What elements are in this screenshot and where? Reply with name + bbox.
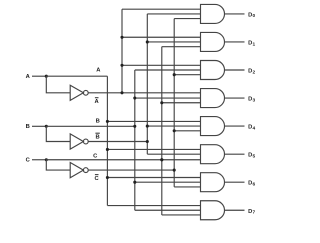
junction on bus at D4 bottom tap — [173, 129, 176, 132]
and-gate U11 (D7) — [201, 201, 225, 220]
wire C to C bus — [46, 159, 162, 161]
wire D5 bottom input — [162, 159, 201, 161]
junction on bus at D2 top tap — [120, 64, 123, 67]
wire D1 bottom input — [162, 46, 201, 48]
wire D3 bottom input — [162, 102, 201, 104]
and-gate U4 (D0) — [201, 4, 225, 23]
wire D4 bottom input — [174, 130, 200, 132]
svg-text:1: 1 — [253, 41, 256, 47]
and-gate U10 (D6) — [201, 173, 225, 192]
wire B inverter branch — [46, 126, 70, 141]
wire D2 bottom input — [174, 74, 200, 76]
node A input junction — [45, 75, 48, 78]
wire A inverter branch — [46, 76, 70, 93]
wire D4 output — [225, 125, 245, 127]
wire C input — [32, 159, 46, 161]
and-gate U7 (D3) — [201, 89, 225, 108]
wire D0 bottom input — [174, 18, 200, 20]
bus C vertical — [161, 47, 163, 215]
junction B line to B bus — [133, 125, 136, 128]
wire D5 output — [225, 153, 245, 155]
wire D5 top input — [107, 148, 200, 150]
svg-text:3: 3 — [253, 97, 256, 103]
inverter U1 (A) — [70, 85, 88, 100]
and-gate U8 (D4) — [201, 117, 225, 136]
wire D3 output — [225, 97, 245, 99]
wire B input — [32, 125, 46, 127]
wire B-bar output — [88, 141, 147, 143]
svg-text:4: 4 — [253, 125, 256, 131]
svg-text:C: C — [95, 176, 100, 182]
wire C-bar output — [88, 169, 174, 171]
wire D7 top input — [107, 205, 200, 207]
svg-text:A: A — [26, 74, 31, 80]
junction A-bar line to A-bar bus — [120, 91, 123, 94]
junction on bus at D5 bottom tap — [160, 158, 163, 161]
svg-text:6: 6 — [253, 182, 256, 188]
wire D6 middle input — [135, 181, 201, 183]
junction on bus at D5 top tap — [106, 148, 109, 151]
and-gate U6 (D2) — [201, 61, 225, 80]
bus A vertical — [106, 76, 108, 205]
bus A-bar vertical — [121, 9, 123, 93]
junction on bus at D1 top tap — [120, 36, 123, 39]
svg-text:7: 7 — [253, 210, 256, 216]
wire B to B bus — [46, 125, 135, 127]
svg-text:C: C — [26, 157, 31, 163]
junction on bus at D6 top tap — [106, 176, 109, 179]
svg-text:B: B — [96, 135, 100, 141]
wire D1 top input — [122, 36, 201, 38]
wire D6 output — [225, 181, 245, 183]
wire D6 bottom input — [174, 186, 200, 188]
wire D7 output — [225, 209, 245, 211]
node C input junction — [45, 158, 48, 161]
svg-text:0: 0 — [253, 13, 256, 19]
wire D2 top input — [122, 64, 201, 66]
junction B-bar line to B-bar bus — [146, 140, 149, 143]
svg-text:B: B — [96, 118, 100, 124]
node B input junction — [45, 125, 48, 128]
and-gate U9 (D5) — [201, 145, 225, 164]
junction on bus at D4 middle tap — [146, 125, 149, 128]
junction on bus at D4 top tap — [106, 120, 109, 123]
wire D1 output — [225, 41, 245, 43]
wire D1 middle input — [147, 41, 200, 43]
wire D4 top input — [107, 120, 200, 122]
wire D7 middle input — [135, 209, 201, 211]
wire D4 middle input — [147, 125, 200, 127]
svg-text:5: 5 — [253, 153, 256, 159]
wire D3 middle input — [135, 97, 201, 99]
wire D6 top input — [107, 177, 200, 179]
wire D2 output — [225, 69, 245, 71]
svg-text:B: B — [26, 124, 30, 130]
bus B-bar vertical — [146, 14, 148, 154]
wire A input — [32, 75, 46, 77]
wire A-bar output (feeds D3 top) — [88, 92, 200, 94]
junction C line to C bus (D5 bottom tap) — [160, 158, 163, 161]
and-gate U5 (D1) — [201, 32, 225, 51]
wire D5 middle input — [147, 153, 200, 155]
junction on bus at D3 bottom tap — [160, 101, 163, 104]
bus C-bar vertical — [173, 19, 175, 187]
inverter U3 (C) — [70, 163, 88, 178]
wire D7 bottom input — [162, 214, 201, 216]
junction on bus at D6 middle tap — [133, 181, 136, 184]
svg-text:A: A — [95, 99, 100, 105]
wire D0 output — [225, 13, 245, 15]
svg-text:C: C — [93, 153, 98, 159]
junction C-bar line to C-bar bus — [173, 169, 176, 172]
wire A to bus corner — [46, 75, 107, 77]
inverter U2 (B) — [70, 134, 88, 149]
svg-text:2: 2 — [253, 69, 256, 75]
wire D0 top input — [122, 8, 201, 10]
junction on bus at D1 middle tap — [146, 40, 149, 43]
junction on bus at D2 bottom tap — [173, 73, 176, 76]
junction on bus at D3 middle tap — [133, 97, 136, 100]
svg-text:A: A — [96, 67, 101, 73]
bus B vertical — [134, 70, 136, 210]
wire D2 middle input — [135, 69, 201, 71]
wire D0 middle input — [147, 13, 200, 15]
wire C inverter branch — [46, 160, 70, 170]
